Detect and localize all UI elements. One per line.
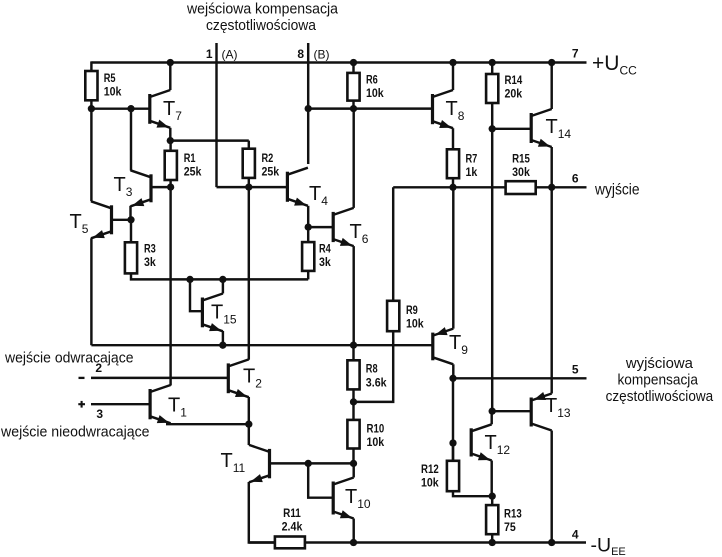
wire R5 bottom lead (90, 100, 92, 108)
svg-text:(B): (B) (314, 48, 330, 62)
svg-text:1: 1 (206, 47, 213, 61)
transistor T6 (333, 208, 354, 246)
wire mid line to T9 base (91, 344, 432, 346)
svg-text:5: 5 (572, 363, 579, 377)
wire R6 top lead (352, 63, 354, 73)
node T10 emitter on rail (350, 539, 357, 546)
svg-text:30k: 30k (512, 167, 530, 179)
wire branch down to T3 collector (130, 109, 132, 171)
wire T13 emitter up to output node (550, 187, 552, 393)
svg-text:częstotliwościowa: częstotliwościowa (606, 389, 714, 405)
transistor T15 (202, 294, 223, 332)
svg-text:wyjściowa: wyjściowa (625, 356, 694, 372)
wire R3 top lead (130, 220, 132, 243)
node R8 bottom junction (350, 398, 357, 405)
node T11 base / T10 junction (305, 460, 312, 467)
wire R3 bottom corner (131, 273, 308, 279)
wire pin8 node down to T4 collector (307, 109, 309, 164)
svg-text:kompensacja: kompensacja (617, 373, 698, 389)
wire inverting input pin2 (91, 377, 228, 379)
node R13 bottom on rail (489, 539, 496, 546)
node T7 base branch junction (127, 105, 134, 112)
resistor R8 (347, 360, 359, 389)
wire T15 emitter down (222, 331, 224, 345)
node T15 base tap (186, 276, 193, 283)
wire T5 base to junction (112, 219, 132, 221)
wire top rail corner to R5 (90, 61, 92, 71)
resistor R10 (347, 420, 359, 449)
svg-text:R14: R14 (505, 75, 523, 87)
svg-text:10k: 10k (406, 319, 424, 331)
wire T5 collector up to R5 node (90, 109, 92, 202)
svg-text:wejście odwracające: wejście odwracające (4, 351, 133, 367)
wire R8 bottom lead (352, 389, 354, 402)
wire R1-bottom down to T1 collector (169, 187, 171, 385)
svg-text:R10: R10 (367, 424, 385, 436)
wire pin1 corner to R2 bottom node (217, 186, 249, 188)
wire T13 collector down to rail (550, 431, 552, 543)
node T1/T2 emitter junction (245, 421, 252, 428)
wire T8 collector up to rail (452, 63, 454, 91)
wire R1-top to R2-top (170, 139, 249, 141)
wire T9-node down to T12 base (452, 378, 454, 461)
wire pin5 compensation line (453, 377, 587, 379)
node R1 top junction (167, 137, 174, 144)
node R12/R13 junction (489, 493, 496, 500)
node R2 bottom junction (245, 183, 252, 190)
svg-text:3k: 3k (319, 257, 331, 269)
svg-text:75: 75 (504, 522, 516, 534)
svg-text:wejście nieodwracające: wejście nieodwracające (0, 425, 149, 441)
node T8 collector on rail (449, 59, 456, 66)
transistor T5 (91, 201, 112, 238)
transistor T3 (131, 170, 152, 206)
svg-text:R3: R3 (144, 244, 156, 256)
node R1 bottom junction (167, 183, 174, 190)
node T14 collector on rail (548, 59, 555, 66)
wire output corner down to R9 (392, 187, 394, 300)
wire T11 emitter down to rail corner (249, 482, 275, 543)
wire T6 emitter down to R8 node (352, 246, 354, 345)
svg-text:4: 4 (572, 528, 579, 542)
wire T7 collector up to rail (169, 63, 171, 91)
wire T5 emitter down to mid line (90, 238, 92, 345)
svg-text:R5: R5 (104, 73, 116, 85)
svg-text:R11: R11 (283, 508, 301, 520)
wire R2-bottom down to T2 collector (248, 187, 250, 360)
resistor R9 (387, 301, 399, 331)
svg-text:25k: 25k (262, 167, 280, 179)
resistor R2 (243, 149, 255, 178)
svg-text:10k: 10k (104, 87, 122, 99)
svg-text:R4: R4 (319, 244, 331, 256)
svg-text:7: 7 (572, 47, 579, 61)
node R5 bottom junction (88, 105, 95, 112)
svg-text:(A): (A) (222, 48, 238, 62)
node T13 collector on rail (548, 539, 555, 546)
svg-text:R9: R9 (406, 305, 418, 317)
svg-text:R2: R2 (262, 153, 274, 165)
wire T10 collector up to R10 node (352, 463, 354, 477)
svg-text:8: 8 (297, 47, 304, 61)
wire corner down to R2 (248, 141, 250, 149)
wire +Ucc top rail (91, 61, 586, 63)
wire pin1 (A) vertical (215, 43, 217, 187)
wire R9 bottom jog (354, 331, 394, 402)
wire T4 emitter down (307, 206, 309, 227)
svg-text:R15: R15 (512, 154, 530, 166)
wire T13 base line (492, 410, 531, 412)
resistor R13 (486, 505, 498, 534)
wire T11 base line (270, 462, 354, 464)
wire R13 top lead (491, 496, 493, 505)
node T15 emitter on mid line (219, 342, 226, 349)
node R7 bottom on output rail (449, 184, 456, 191)
transistor T7 (150, 90, 171, 128)
node R6 top on rail (350, 59, 357, 66)
transistor T1 (150, 385, 171, 423)
wire T9 collector down (452, 364, 454, 378)
svg-text:R13: R13 (504, 509, 522, 521)
resistor R3 (125, 242, 137, 273)
wire T11 collector up to emitter node (248, 424, 250, 445)
node T3 emitter / T5 base / R3 junction (127, 216, 134, 223)
transistor T14 (531, 109, 552, 147)
wire T10 base jog (308, 463, 333, 497)
wire R10 top lead (352, 402, 354, 420)
resistor R15 (506, 181, 536, 194)
wire T14 emitter down to output (550, 147, 552, 187)
wire R8 top lead (352, 345, 354, 360)
wire T14 collector up to rail (550, 63, 552, 110)
svg-text:10k: 10k (366, 88, 384, 100)
node R10 bottom junction (350, 460, 357, 467)
resistor R1 (165, 151, 177, 180)
node pin8 to R6 junction (305, 105, 312, 112)
wire -Uee bottom rail left segment (249, 541, 275, 543)
resistor R4 (302, 242, 314, 271)
svg-text:wyjście: wyjście (594, 182, 639, 199)
wire pin8 (B) vertical (307, 43, 309, 109)
node R14 bottom / T14 base junction (489, 125, 496, 132)
wire T9 emitter up to output node (452, 187, 454, 328)
wire T14 base (492, 128, 531, 130)
node T9 collector / pin5 junction (449, 375, 456, 382)
transistor T13 (531, 392, 552, 431)
plus sign of non-inverting input (78, 401, 85, 408)
svg-text:R6: R6 (366, 75, 378, 87)
resistor R14 (486, 74, 498, 103)
wire R4 bottom corner (307, 271, 309, 280)
svg-text:3.6k: 3.6k (366, 378, 387, 390)
resistor R7 (447, 149, 459, 178)
wire R1 bottom lead (169, 180, 171, 187)
wire T15 base jog (190, 279, 202, 311)
svg-text:10k: 10k (367, 437, 385, 449)
wire T7 emitter down to R1 top node (169, 128, 171, 141)
wire T1 emitter line to node (166, 423, 249, 425)
svg-text:R1: R1 (184, 153, 196, 165)
wire -Uee bottom rail right segment (305, 541, 586, 543)
transistor T4 (287, 168, 308, 206)
wire output rail right of R15 (536, 186, 587, 188)
resistor R5 (85, 71, 97, 100)
wire T3 base to R1 node (151, 186, 171, 188)
wire R14-node down to T13 base node (491, 129, 493, 411)
wire R4 top lead (307, 227, 309, 242)
node T13 base / T12 collector junction (489, 408, 496, 415)
wire T3 emitter down (129, 206, 131, 220)
transistor T9 (433, 327, 454, 364)
wire pin8-node to T8 base (308, 107, 432, 109)
wire R2 bottom lead (248, 178, 250, 187)
wire T12 emitter down (490, 461, 492, 497)
svg-text:3: 3 (96, 407, 103, 421)
svg-text:1k: 1k (466, 167, 478, 179)
node R14 top on rail (489, 59, 496, 66)
wire R12 bottom jog (453, 491, 492, 496)
node R8 top junction (350, 342, 357, 349)
wire R10 bottom lead (352, 449, 354, 464)
transistor T12 (471, 424, 492, 460)
svg-text:2.4k: 2.4k (282, 522, 303, 534)
wire T2 emitter down to node (248, 397, 250, 424)
node T12 base junction (449, 439, 456, 446)
wire R12 top lead (452, 443, 454, 461)
svg-text:R7: R7 (466, 154, 478, 166)
wire non-inverting input pin3 (91, 403, 150, 405)
resistor R11 (275, 537, 305, 549)
wire R1 top lead (169, 141, 171, 151)
node output junction (548, 184, 555, 191)
svg-text:R8: R8 (366, 364, 378, 376)
svg-text:25k: 25k (184, 167, 202, 179)
node R6 bottom junction (350, 105, 357, 112)
svg-text:6: 6 (572, 172, 579, 186)
transistor T2 (228, 359, 249, 397)
svg-text:20k: 20k (505, 89, 523, 101)
wire junction to T6 base (308, 226, 333, 228)
node T15 collector junction (219, 276, 226, 283)
wire T15 collector up (222, 279, 224, 293)
wire R5-bottom to T7 base (91, 107, 149, 109)
resistor R12 (447, 461, 459, 491)
wire R14 top lead (491, 63, 493, 75)
wire R2-bottom to T4 base (249, 186, 288, 188)
wire T6 collector up to R6 node (352, 109, 354, 208)
svg-text:częstotliwościowa: częstotliwościowa (206, 18, 317, 34)
wire output rail left of R15 (393, 186, 505, 188)
transistor T8 (433, 90, 454, 128)
svg-text:R12: R12 (421, 464, 439, 476)
wire T10 emitter down to rail (352, 519, 354, 543)
node T7 collector on rail (167, 59, 174, 66)
wire T12 collector up to T13 base node (490, 411, 492, 424)
wire R14 bottom lead (491, 103, 493, 129)
wire R13 bottom lead (491, 534, 493, 542)
wire R7 bottom lead (452, 178, 454, 187)
wire R6 bottom lead (352, 101, 354, 109)
minus sign of inverting input (79, 377, 85, 379)
transistor T10 (333, 478, 354, 519)
svg-text:3k: 3k (144, 257, 156, 269)
svg-text:wejściowa kompensacja: wejściowa kompensacja (186, 2, 339, 18)
svg-text:10k: 10k (421, 478, 439, 490)
wire T8 emitter to R7 (452, 128, 454, 149)
node T4 emitter / R4 / T6 base junction (305, 223, 312, 230)
resistor R6 (347, 73, 359, 101)
transistor T11 (249, 445, 270, 482)
